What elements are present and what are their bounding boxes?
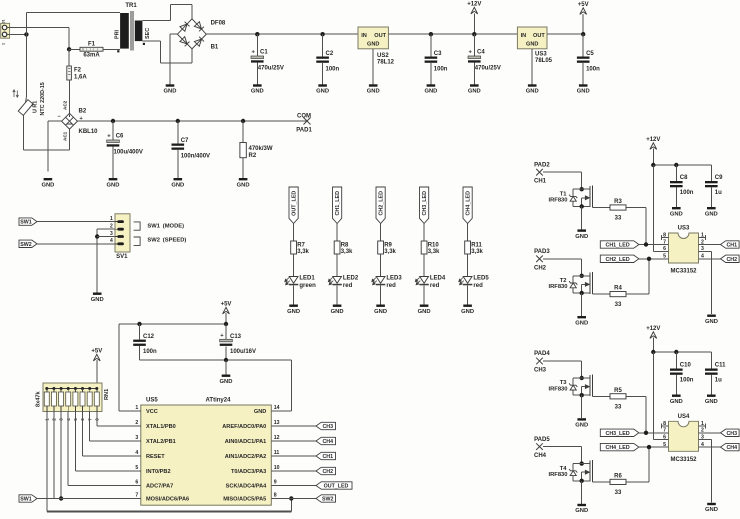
svg-text:IRF830: IRF830 xyxy=(548,386,567,392)
wire xyxy=(380,254,382,277)
wire xyxy=(67,412,69,486)
wire xyxy=(626,207,646,209)
svg-text:SEC: SEC xyxy=(145,28,151,39)
op-amp driver US3 MC33152 xyxy=(663,226,704,275)
svg-text:GND: GND xyxy=(577,89,590,95)
wire xyxy=(37,221,115,223)
svg-text:GND: GND xyxy=(287,309,300,315)
svg-text:CH3: CH3 xyxy=(726,431,737,437)
pin 1 nc stub xyxy=(699,424,706,429)
wire pin stub xyxy=(126,455,141,457)
svg-text:SW2: SW2 xyxy=(20,242,32,248)
wire xyxy=(592,207,610,209)
ground xyxy=(705,207,718,217)
svg-text:GND: GND xyxy=(575,423,588,429)
wire xyxy=(699,432,721,434)
svg-text:C7: C7 xyxy=(181,138,189,144)
svg-text:12: 12 xyxy=(274,435,280,441)
resistor R4 xyxy=(610,292,626,297)
svg-text:R2: R2 xyxy=(249,153,257,159)
svg-text:green: green xyxy=(299,283,316,289)
svg-text:1,6A: 1,6A xyxy=(74,75,87,81)
svg-text:AIN0/ADC1/PA1: AIN0/ADC1/PA1 xyxy=(225,439,267,445)
svg-text:LED5: LED5 xyxy=(473,276,489,282)
wire xyxy=(380,285,382,304)
svg-text:R4: R4 xyxy=(614,286,622,292)
wire xyxy=(652,149,654,166)
capacitor C5 xyxy=(577,57,590,63)
svg-text:100n: 100n xyxy=(680,190,694,196)
svg-text:MC33152: MC33152 xyxy=(670,457,697,463)
node junction xyxy=(472,32,476,36)
svg-text:LED1: LED1 xyxy=(299,276,315,282)
svg-text:(SPEED): (SPEED) xyxy=(163,238,187,244)
wire xyxy=(242,158,244,178)
wire xyxy=(47,511,291,513)
wire xyxy=(710,165,712,181)
svg-text:PAD3: PAD3 xyxy=(534,249,550,255)
wire xyxy=(380,224,382,242)
svg-text:11: 11 xyxy=(274,450,280,456)
svg-text:IRF830: IRF830 xyxy=(548,284,567,290)
ground xyxy=(461,305,474,315)
wire xyxy=(37,498,126,500)
wire xyxy=(626,481,649,483)
wire xyxy=(582,34,584,56)
wire xyxy=(430,34,432,56)
svg-text:GND: GND xyxy=(237,182,250,188)
svg-text:8x47k: 8x47k xyxy=(36,391,42,407)
wire xyxy=(256,34,258,56)
svg-text:GND: GND xyxy=(367,89,380,95)
svg-text:IRF830: IRF830 xyxy=(548,198,567,204)
svg-text:IRF830: IRF830 xyxy=(548,472,567,478)
wire xyxy=(139,346,141,360)
svg-text:CH4_LED: CH4_LED xyxy=(606,445,630,451)
svg-text:SCK/ADC4/PA4: SCK/ADC4/PA4 xyxy=(226,484,268,490)
svg-text:CH4: CH4 xyxy=(534,453,547,459)
ground xyxy=(705,395,718,405)
power +12V upper driver xyxy=(646,137,660,149)
svg-text:GND: GND xyxy=(575,320,588,326)
svg-text:3,3k: 3,3k xyxy=(471,249,483,255)
wire xyxy=(69,48,80,50)
wire xyxy=(74,412,76,472)
power +5V xyxy=(578,2,589,14)
svg-text:C9: C9 xyxy=(715,175,723,181)
ground xyxy=(367,84,380,94)
svg-text:1u: 1u xyxy=(715,190,722,196)
node junction xyxy=(580,479,584,483)
wire xyxy=(645,208,647,245)
wire xyxy=(112,147,114,178)
wire xyxy=(47,121,49,171)
svg-text:R11: R11 xyxy=(471,242,482,248)
wire xyxy=(639,446,669,448)
transistor T3 IRF830 xyxy=(548,374,592,396)
wire xyxy=(473,14,475,35)
svg-text:R3: R3 xyxy=(614,199,622,205)
ground xyxy=(705,315,718,325)
net flag CH4_LED xyxy=(600,443,639,451)
wire xyxy=(90,440,126,442)
wire xyxy=(290,360,292,411)
wire xyxy=(336,224,338,242)
wire xyxy=(142,40,160,42)
wire xyxy=(581,481,583,504)
node junction xyxy=(429,32,433,36)
wire xyxy=(97,228,115,230)
node junction xyxy=(674,163,678,167)
ground xyxy=(575,504,588,514)
wire pin stub xyxy=(126,425,141,427)
svg-text:AC2: AC2 xyxy=(63,100,68,110)
svg-text:2: 2 xyxy=(135,420,138,426)
net flag SW2 xyxy=(19,240,37,248)
net flag SW1 xyxy=(19,218,37,226)
wire xyxy=(25,12,27,97)
capacitor C12 xyxy=(133,340,146,346)
transistor T2 IRF830 xyxy=(548,272,592,294)
wire xyxy=(96,229,98,292)
node junction xyxy=(580,291,584,295)
svg-text:CH3: CH3 xyxy=(322,424,333,430)
wire xyxy=(293,224,295,242)
svg-text:C6: C6 xyxy=(116,134,124,140)
wire xyxy=(225,360,227,375)
resistor R10 xyxy=(421,241,427,254)
wire xyxy=(96,360,98,389)
resistor R7 xyxy=(291,241,297,254)
wire xyxy=(68,28,70,50)
svg-text:red: red xyxy=(386,283,396,289)
wire xyxy=(169,34,171,84)
capacitor C1 xyxy=(251,50,264,63)
wire pin3 to ground xyxy=(699,440,712,503)
wire xyxy=(423,285,425,304)
net flag CH2_LED xyxy=(600,255,639,263)
svg-text:100n: 100n xyxy=(143,349,157,355)
capacitor C7 xyxy=(172,144,185,150)
svg-text:T0/ADC3/PA3: T0/ADC3/PA3 xyxy=(231,469,266,475)
wire xyxy=(293,285,295,304)
svg-text:78L12: 78L12 xyxy=(377,60,395,66)
LED LED2 red xyxy=(328,276,359,290)
wire pin stub xyxy=(126,440,141,442)
wire xyxy=(675,165,677,181)
wire xyxy=(82,412,84,457)
microcontroller US5 ATtiny24 xyxy=(135,398,279,506)
capacitor C3 xyxy=(425,57,438,63)
svg-text:78L05: 78L05 xyxy=(535,58,553,64)
svg-text:GND: GND xyxy=(424,89,437,95)
svg-text:R7: R7 xyxy=(297,242,305,248)
node junction xyxy=(651,350,655,354)
svg-text:PAD4: PAD4 xyxy=(534,351,550,357)
svg-text:LED2: LED2 xyxy=(343,276,359,282)
net flag CH1 xyxy=(721,241,740,249)
wire xyxy=(225,313,227,324)
node junction xyxy=(651,163,655,167)
net flag CH4 xyxy=(721,443,740,451)
wire xyxy=(423,224,425,242)
svg-text:RN1: RN1 xyxy=(104,389,110,400)
pad PAD3 xyxy=(534,249,550,271)
wire xyxy=(103,48,120,50)
wire xyxy=(639,258,669,260)
capacitor C13 xyxy=(220,333,233,346)
ground xyxy=(251,84,264,94)
node junction xyxy=(59,496,63,500)
net flag CH3_LED xyxy=(600,429,639,437)
ground xyxy=(287,305,300,315)
wire xyxy=(675,375,677,395)
ground xyxy=(577,84,590,94)
wire xyxy=(675,187,677,207)
svg-text:AIN1/ADC2/PA2: AIN1/ADC2/PA2 xyxy=(225,454,267,460)
wire xyxy=(170,33,177,35)
svg-text:C13: C13 xyxy=(230,334,242,340)
ground xyxy=(705,503,718,513)
wire xyxy=(372,49,374,85)
bridge rectifier B1 DF08 xyxy=(177,19,226,51)
node junction xyxy=(674,350,678,354)
svg-text:IN: IN xyxy=(361,33,367,39)
wire xyxy=(48,120,62,122)
wire xyxy=(626,293,649,295)
svg-text:33: 33 xyxy=(615,216,622,222)
ground xyxy=(331,305,344,315)
svg-text:MOSI/ADC6/PA6: MOSI/ADC6/PA6 xyxy=(146,497,189,503)
capacitor C4 xyxy=(468,50,481,63)
ground xyxy=(220,375,233,385)
svg-text:R8: R8 xyxy=(341,242,349,248)
pad PAD2 xyxy=(534,162,550,184)
node junction xyxy=(176,119,180,123)
svg-text:3,3k: 3,3k xyxy=(384,249,396,255)
voltage regulator US2 78L12 xyxy=(358,27,395,66)
net flag CH2 xyxy=(721,255,740,263)
svg-text:100n: 100n xyxy=(586,66,600,72)
net flag SW2 mcu xyxy=(316,495,336,503)
wire xyxy=(271,455,316,457)
svg-text:GND: GND xyxy=(670,211,683,217)
svg-text:SW1: SW1 xyxy=(20,497,32,503)
node junction xyxy=(224,358,228,362)
bridge rectifier B2 KBL10 xyxy=(58,100,99,141)
svg-text:XTAL1/PB0: XTAL1/PB0 xyxy=(146,424,176,430)
wire xyxy=(242,121,244,143)
ground xyxy=(237,178,250,188)
wire xyxy=(177,121,179,144)
wire pin stub xyxy=(126,498,141,500)
capacitor C11 xyxy=(705,369,718,375)
ground xyxy=(526,84,539,94)
wire xyxy=(256,63,258,85)
svg-text:3: 3 xyxy=(110,231,113,237)
wire xyxy=(581,293,583,316)
pin 1 nc stub xyxy=(699,235,706,240)
transformer TR1 xyxy=(114,3,151,52)
connector J1 xyxy=(1,20,10,46)
net flag CH2 mcu xyxy=(316,467,336,475)
ground xyxy=(575,316,588,326)
wire xyxy=(699,258,721,260)
wire xyxy=(119,410,141,412)
svg-text:red: red xyxy=(430,283,440,289)
connector SV1 xyxy=(110,214,130,260)
wire xyxy=(139,324,141,340)
ground xyxy=(91,293,104,303)
svg-text:3: 3 xyxy=(135,435,138,441)
svg-text:C11: C11 xyxy=(715,363,726,369)
node junction xyxy=(580,187,584,191)
svg-text:100u/400V: 100u/400V xyxy=(114,150,143,156)
wire xyxy=(423,254,425,277)
wire xyxy=(699,244,721,246)
wire +12V to pin 6 xyxy=(653,165,668,251)
wire xyxy=(271,440,316,442)
svg-text:GND: GND xyxy=(91,297,104,303)
node junction xyxy=(580,204,584,208)
node junction xyxy=(644,431,648,435)
svg-text:B2: B2 xyxy=(79,109,87,115)
wire xyxy=(271,470,316,472)
svg-text:1: 1 xyxy=(135,405,138,411)
svg-text:C1: C1 xyxy=(260,50,268,56)
ground xyxy=(575,229,588,239)
wire pin14 stub xyxy=(271,410,291,412)
wire xyxy=(581,172,583,189)
node COM PAD1 xyxy=(296,114,312,134)
transistor T4 IRF830 xyxy=(548,460,592,482)
svg-text:NTC 220D-15: NTC 220D-15 xyxy=(40,82,46,115)
resistor R9 xyxy=(378,241,384,254)
node junction xyxy=(137,322,141,326)
ground xyxy=(107,178,120,188)
svg-text:GND: GND xyxy=(705,507,718,513)
node junction xyxy=(111,119,115,123)
node junction xyxy=(580,274,584,278)
fuse F1 xyxy=(80,42,103,59)
capacitor C8 xyxy=(670,181,683,187)
node junction xyxy=(644,242,648,246)
wire xyxy=(140,359,292,361)
wire xyxy=(648,447,650,482)
wire xyxy=(118,324,120,411)
ground xyxy=(41,178,54,188)
wire xyxy=(592,481,610,483)
wire xyxy=(467,285,469,304)
svg-text:100n/400V: 100n/400V xyxy=(181,153,210,159)
node junction xyxy=(320,32,324,36)
capacitor C10 xyxy=(670,369,683,375)
wire xyxy=(112,121,114,140)
switch bracket SW1 MODE xyxy=(134,222,185,230)
svg-text:T3: T3 xyxy=(560,380,568,386)
svg-text:6: 6 xyxy=(135,480,138,486)
svg-text:GND: GND xyxy=(670,399,683,405)
svg-text:CH3: CH3 xyxy=(534,368,547,374)
wire xyxy=(46,412,48,512)
wire xyxy=(89,412,91,442)
net flag OUT_LED mcu xyxy=(316,482,352,490)
power +5V mcu xyxy=(221,302,232,314)
wire xyxy=(531,49,533,85)
wire xyxy=(68,129,70,150)
svg-text:INT0/PB2: INT0/PB2 xyxy=(146,469,171,475)
svg-text:US3: US3 xyxy=(535,51,547,57)
svg-text:PAD1: PAD1 xyxy=(296,128,312,134)
wire xyxy=(97,236,115,238)
svg-text:8: 8 xyxy=(274,493,277,499)
wire xyxy=(430,63,432,85)
ground xyxy=(374,305,387,315)
wire xyxy=(336,254,338,277)
net flag CH1_LED xyxy=(333,187,342,224)
net flag CH4_LED xyxy=(463,187,472,224)
node junction xyxy=(67,47,71,51)
svg-text:33: 33 xyxy=(615,302,622,308)
svg-text:MISO/ADC5/PA5: MISO/ADC5/PA5 xyxy=(223,497,266,503)
svg-text:470u/25V: 470u/25V xyxy=(475,66,501,72)
node junction xyxy=(580,461,584,465)
capacitor C2 xyxy=(316,57,329,63)
svg-text:LED4: LED4 xyxy=(430,276,446,282)
wire xyxy=(710,187,712,207)
LED LED4 red xyxy=(415,276,446,290)
svg-text:U R1: U R1 xyxy=(33,101,39,113)
wire xyxy=(271,498,316,500)
resistor network RN1 8x47k xyxy=(36,383,111,421)
wire xyxy=(543,360,582,362)
wire xyxy=(97,425,126,427)
svg-text:VCC: VCC xyxy=(146,409,158,415)
wire xyxy=(467,224,469,242)
svg-text:GND: GND xyxy=(171,182,184,188)
wire xyxy=(37,243,115,245)
node junction xyxy=(580,376,584,380)
svg-text:SV1: SV1 xyxy=(116,254,128,260)
wire xyxy=(592,293,610,295)
ground xyxy=(468,84,481,94)
wire xyxy=(26,11,120,13)
wire xyxy=(83,455,127,457)
power +12V xyxy=(467,2,481,14)
svg-text:4: 4 xyxy=(110,238,113,244)
svg-text:9: 9 xyxy=(274,480,277,486)
svg-text:TR1: TR1 xyxy=(125,3,137,9)
wire xyxy=(626,395,646,397)
wire xyxy=(581,206,583,229)
svg-text:ADC7/PA7: ADC7/PA7 xyxy=(146,484,173,490)
wire xyxy=(271,485,316,487)
ground xyxy=(424,84,437,94)
svg-text:IN: IN xyxy=(521,33,527,39)
pad PAD5 xyxy=(534,437,550,459)
svg-text:CH1: CH1 xyxy=(322,454,333,460)
svg-text:CH4: CH4 xyxy=(322,439,333,445)
net flag OUT_LED xyxy=(289,187,298,224)
svg-text:GND: GND xyxy=(468,89,481,95)
node junction xyxy=(95,234,99,238)
svg-text:CH2: CH2 xyxy=(726,257,737,263)
svg-text:CH2: CH2 xyxy=(322,469,333,475)
svg-text:CH4: CH4 xyxy=(726,445,737,451)
wire xyxy=(581,259,583,276)
svg-text:R6: R6 xyxy=(614,473,622,479)
power +12V lower driver xyxy=(646,326,660,338)
